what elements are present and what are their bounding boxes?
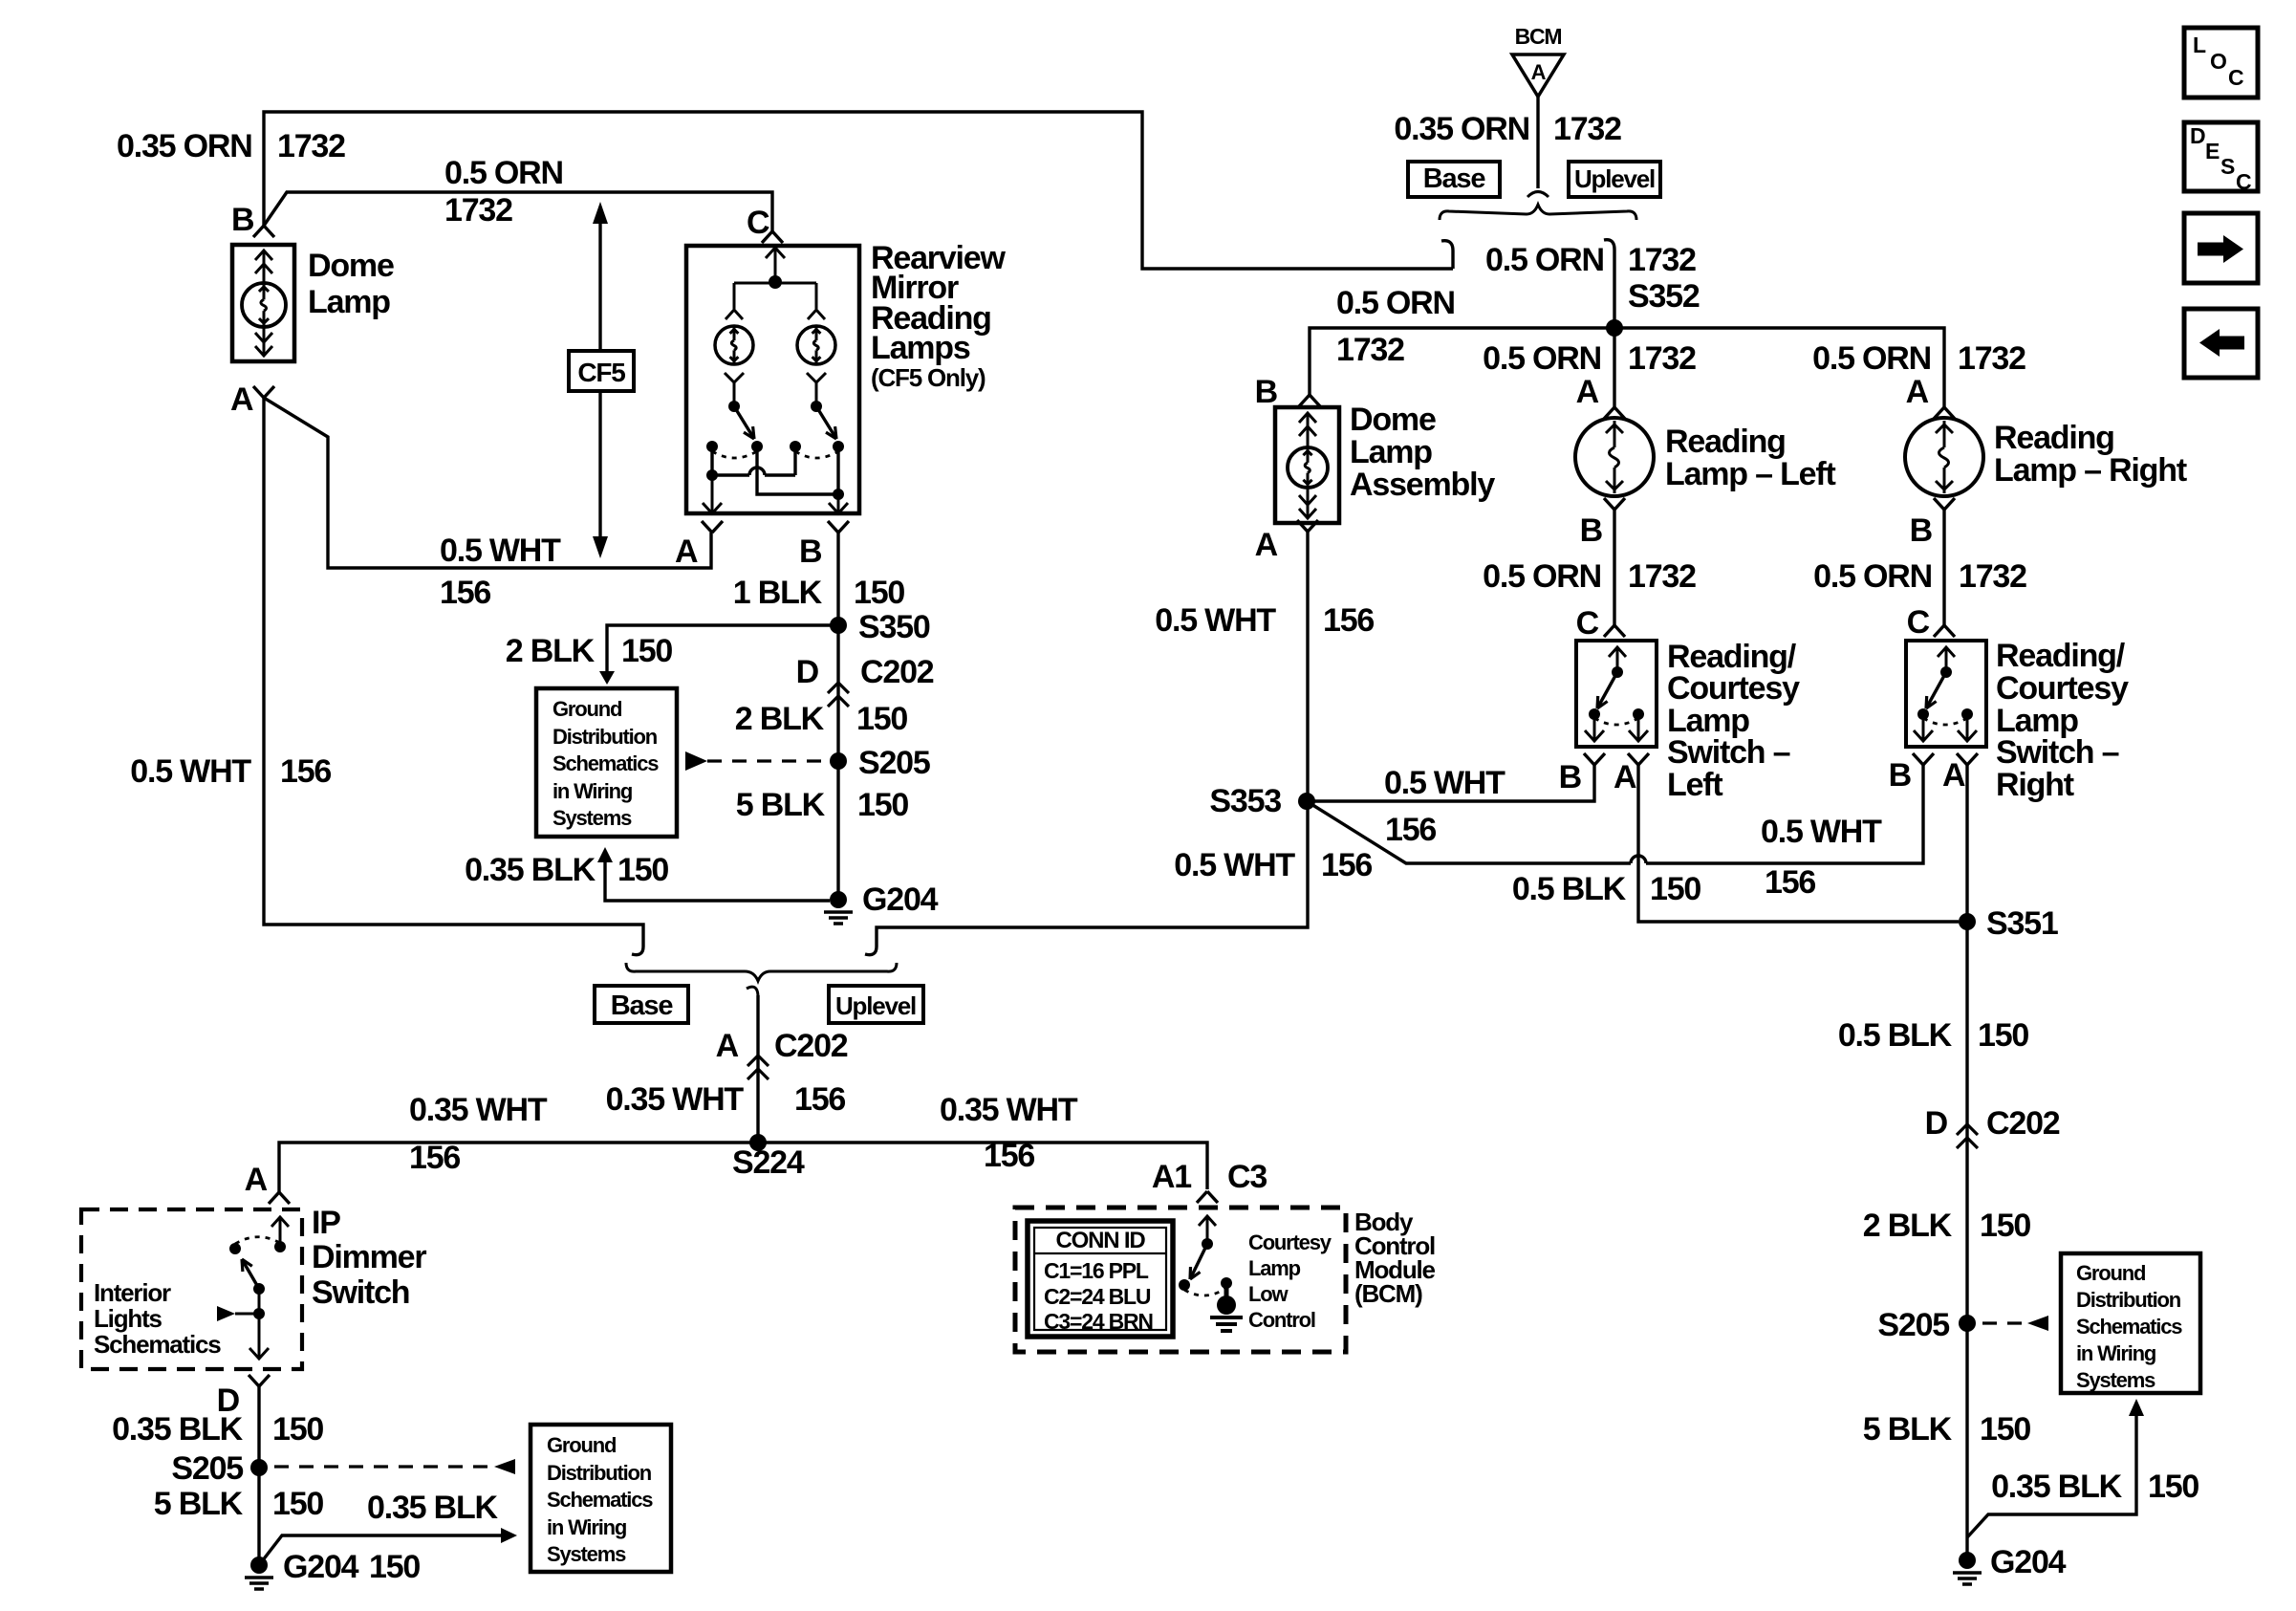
reading lamp right A pin [1934, 407, 1955, 419]
dashed reference S205 (bottom right) [1982, 1321, 2027, 1324]
svg-text:156: 156 [984, 1138, 1034, 1174]
IP dimmer pivot dot [253, 1283, 265, 1295]
IP dimmer dashed arc [235, 1237, 280, 1244]
svg-text:C2=24 BLU: C2=24 BLU [1044, 1284, 1151, 1309]
Uplevel box (bottom bus) [829, 986, 923, 1023]
svg-text:Right: Right [1996, 767, 2074, 803]
BCM A1 pin [1197, 1191, 1218, 1203]
dome lamp B pin [253, 226, 274, 237]
svg-text:Schematics: Schematics [552, 751, 659, 775]
svg-text:A: A [1531, 60, 1547, 84]
splice S350 [830, 617, 847, 634]
svg-text:0.5 ORN: 0.5 ORN [1483, 340, 1601, 377]
CONN ID table [1028, 1221, 1173, 1337]
wire 0.35 ORN 1732 BCM to bus [1536, 97, 1539, 188]
svg-text:Assembly: Assembly [1350, 467, 1495, 503]
svg-text:156: 156 [1323, 602, 1374, 639]
svg-text:Courtesy: Courtesy [1248, 1230, 1332, 1254]
svg-text:Distribution: Distribution [552, 725, 658, 749]
reading lamp right bulb [1905, 418, 1983, 496]
svg-text:B: B [1889, 757, 1912, 794]
ground distribution schematics box (middle left) [536, 688, 677, 837]
svg-text:Dome: Dome [1350, 402, 1436, 438]
svg-text:S205: S205 [1877, 1307, 1949, 1343]
left switch A pin [1628, 753, 1649, 765]
rearview right lamp bulb [797, 326, 835, 364]
bus center hook [747, 987, 758, 995]
dome lamp assembly bulb [1288, 447, 1328, 488]
svg-text:G204: G204 [283, 1549, 359, 1585]
svg-text:2 BLK: 2 BLK [735, 701, 825, 737]
svg-text:S205: S205 [858, 745, 930, 781]
svg-text:Dimmer: Dimmer [312, 1239, 426, 1275]
reading/courtesy lamp switch left [1576, 641, 1657, 747]
svg-text:Reading: Reading [1994, 420, 2114, 456]
rearview A-C crosslink with hop [710, 446, 713, 475]
svg-text:S351: S351 [1986, 905, 2058, 942]
svg-text:BCM: BCM [1515, 24, 1562, 49]
svg-text:C: C [2236, 169, 2251, 194]
svg-text:S350: S350 [858, 609, 930, 645]
splice S351 [1959, 913, 1976, 930]
svg-text:156: 156 [1385, 812, 1436, 848]
splice S205 (middle) [830, 752, 847, 770]
svg-text:150: 150 [1980, 1208, 2030, 1244]
svg-text:1732: 1732 [1958, 340, 2025, 377]
rearview internal junction [769, 275, 782, 289]
rearview dashed contact arc right [795, 451, 838, 458]
IP dimmer D pin [249, 1375, 270, 1386]
main 0.35 WHT wire IP dimmer to BCM [279, 1143, 1207, 1192]
right switch A pin [1957, 753, 1978, 765]
svg-text:B: B [1559, 759, 1582, 795]
svg-text:B: B [799, 533, 822, 570]
DESC legend box [2184, 122, 2258, 191]
svg-text:0.5 ORN: 0.5 ORN [1336, 285, 1455, 321]
wire 1 BLK 150 rearview B to S350 [836, 533, 839, 900]
CF5 arrowhead down [593, 536, 608, 558]
dome lamp assembly up arrows [1299, 413, 1316, 423]
C202 base/uplevel brace [626, 963, 897, 981]
wire 0.5 WHT 156 dome lamp A to rearview mirror A [264, 398, 711, 568]
svg-text:1732: 1732 [444, 192, 512, 229]
svg-text:(BCM): (BCM) [1354, 1279, 1422, 1308]
svg-text:150: 150 [857, 787, 908, 823]
svg-text:0.5 WHT: 0.5 WHT [1174, 847, 1295, 883]
ground G204 (bottom right) [1959, 1552, 1976, 1569]
svg-text:Dome: Dome [308, 248, 394, 284]
svg-text:S224: S224 [732, 1144, 805, 1181]
svg-text:0.5 ORN: 0.5 ORN [1485, 242, 1604, 278]
svg-text:0.5 ORN: 0.5 ORN [444, 155, 563, 191]
svg-text:0.5 WHT: 0.5 WHT [440, 533, 561, 569]
dome lamp assembly down arrows [1299, 495, 1316, 505]
wire 0.5 ORN 1732 from Dome Lamp B to Rearview Mirror C [264, 192, 772, 231]
IP dimmer up arrow [279, 1218, 282, 1247]
svg-text:2 BLK: 2 BLK [506, 633, 596, 669]
svg-text:Courtesy: Courtesy [1996, 670, 2129, 707]
svg-text:G204: G204 [862, 882, 939, 918]
wire 0.5 ORN 1732 lamp right to switch C [1942, 510, 1945, 625]
ground G204 (middle) [830, 891, 847, 908]
wire 0.35 BLK 150 ground distribution to G204 (bottom right) [2129, 1399, 2144, 1416]
svg-text:S205: S205 [171, 1450, 243, 1487]
svg-text:1732: 1732 [1628, 242, 1696, 278]
BCM up arrow [1206, 1217, 1209, 1244]
svg-text:Lights: Lights [94, 1304, 162, 1333]
BCM bus brace [1440, 205, 1636, 220]
svg-text:Switch –: Switch – [1667, 734, 1790, 771]
svg-text:C: C [1907, 604, 1930, 641]
svg-text:S: S [2220, 154, 2235, 179]
svg-text:C: C [1576, 605, 1599, 642]
svg-text:IP: IP [312, 1205, 340, 1241]
wire 0.5 ORN 1732 lamp left to switch C [1613, 510, 1615, 625]
svg-text:Lamp: Lamp [1248, 1256, 1301, 1280]
reading/courtesy lamp switch right [1906, 641, 1986, 747]
IP dimmer switch dashed box [81, 1209, 302, 1369]
svg-text:in Wiring: in Wiring [2076, 1341, 2155, 1365]
svg-text:5 BLK: 5 BLK [736, 787, 826, 823]
svg-text:A: A [1255, 527, 1278, 563]
bus right branch to S352 [1613, 250, 1615, 328]
svg-text:D: D [2190, 123, 2205, 148]
svg-text:Control: Control [1248, 1308, 1315, 1332]
rearview mirror C pin [762, 231, 783, 243]
connector C202 pin D pass-through [828, 683, 849, 693]
svg-text:Uplevel: Uplevel [835, 991, 916, 1020]
rearview left lamp bulb [715, 326, 753, 364]
wire S352 to reading lamp left [1613, 328, 1615, 407]
svg-text:Systems: Systems [547, 1542, 626, 1566]
svg-text:C202: C202 [860, 654, 934, 690]
svg-text:Reading: Reading [1665, 424, 1786, 460]
wire 0.35 BLK / 5 BLK to G204 (bottom left) [257, 1386, 260, 1560]
ground distribution schematics box (bottom right) [2061, 1253, 2200, 1393]
svg-text:B: B [231, 202, 254, 238]
rearview B-D crosslink [757, 446, 838, 494]
svg-text:156: 156 [1765, 864, 1815, 901]
dashed reference to S205 (middle left) [685, 751, 707, 771]
svg-text:150: 150 [272, 1411, 323, 1448]
svg-text:150: 150 [856, 701, 907, 737]
svg-text:150: 150 [854, 575, 904, 611]
svg-text:2 BLK: 2 BLK [1863, 1208, 1953, 1244]
CF5 box [569, 351, 634, 391]
svg-text:0.35 ORN: 0.35 ORN [117, 128, 252, 164]
svg-text:D: D [796, 654, 819, 690]
svg-text:A: A [230, 381, 253, 418]
wire 0.5 ORN 1732 S352 rail [1310, 328, 1944, 407]
arrow into ground distribution box [599, 671, 615, 685]
BCM internal ground [1224, 1283, 1229, 1297]
svg-text:CF5: CF5 [577, 358, 625, 387]
wire 0.35 BLK 150 from ground distribution to G204 (middle) [597, 847, 613, 862]
wire 0.5 WHT 156 long left drop to C202 bus [264, 398, 643, 947]
svg-text:0.5 WHT: 0.5 WHT [1155, 602, 1276, 639]
svg-text:B: B [1255, 374, 1278, 410]
BCM dashed arc [1184, 1288, 1226, 1295]
svg-text:Switch: Switch [312, 1274, 409, 1311]
svg-text:150: 150 [617, 852, 668, 888]
svg-text:0.35 BLK: 0.35 BLK [465, 852, 596, 888]
svg-text:B: B [1580, 512, 1603, 549]
svg-text:S353: S353 [1209, 783, 1281, 819]
rearview left lamp drop [733, 283, 736, 309]
dome lamp assembly box [1275, 407, 1339, 523]
svg-text:150: 150 [1980, 1411, 2030, 1448]
svg-text:Schematics: Schematics [547, 1488, 653, 1512]
rearview left switch lever [734, 406, 754, 439]
svg-text:1732: 1732 [1959, 558, 2026, 595]
svg-text:0.5 ORN: 0.5 ORN [1813, 558, 1932, 595]
svg-text:in Wiring: in Wiring [547, 1515, 626, 1539]
rearview B pin [828, 521, 849, 533]
rearview left lamp lower Y [725, 373, 744, 382]
svg-text:in Wiring: in Wiring [552, 779, 632, 803]
svg-text:Schematics: Schematics [94, 1330, 221, 1359]
svg-text:Distribution: Distribution [2076, 1288, 2181, 1312]
ground distribution schematics box (bottom left) [531, 1425, 671, 1572]
BCM triangle [1512, 54, 1564, 97]
svg-text:1732: 1732 [277, 128, 345, 164]
splice S353 [1298, 793, 1315, 810]
svg-text:0.5 BLK: 0.5 BLK [1512, 871, 1627, 907]
svg-text:(CF5 Only): (CF5 Only) [871, 363, 986, 392]
dome lamp DL1 down arrows [255, 333, 272, 342]
svg-text:Systems: Systems [2076, 1368, 2155, 1392]
LOC legend box [2184, 28, 2258, 98]
interior lights reference arrow [217, 1306, 235, 1321]
svg-text:150: 150 [621, 633, 672, 669]
svg-text:150: 150 [369, 1549, 420, 1585]
svg-text:Low: Low [1248, 1282, 1289, 1306]
svg-text:A: A [1942, 757, 1965, 794]
rearview mirror reading lamps box [686, 246, 859, 513]
svg-text:C202: C202 [774, 1028, 848, 1064]
right switch C pin [1934, 625, 1955, 637]
svg-text:156: 156 [440, 575, 490, 611]
connector C202 pin D pass-through (right) [1957, 1124, 1978, 1135]
svg-text:Systems: Systems [552, 806, 632, 830]
rearview right lamp lower Y [807, 373, 826, 382]
svg-text:B: B [1910, 512, 1933, 549]
svg-text:L: L [2193, 33, 2206, 57]
IP dimmer lever [242, 1259, 259, 1289]
rearview contact dots [706, 441, 718, 452]
wire 0.5 BLK 150 left switch A to S351 [1638, 765, 1959, 922]
svg-text:1 BLK: 1 BLK [733, 575, 823, 611]
BCM contact dot right [1221, 1277, 1232, 1289]
svg-text:D: D [1925, 1105, 1948, 1142]
svg-text:0.35 WHT: 0.35 WHT [940, 1092, 1078, 1128]
IP dimmer A pin [269, 1192, 290, 1204]
svg-text:1732: 1732 [1628, 558, 1696, 595]
svg-text:A: A [1614, 759, 1636, 795]
dome lamp DL1 bulb [242, 283, 286, 327]
svg-text:Switch –: Switch – [1996, 734, 2119, 771]
wire 0.5 WHT 156 S353 to right switch B with hop [1307, 801, 1631, 863]
Uplevel box (top bus) [1569, 162, 1660, 197]
svg-text:1732: 1732 [1628, 340, 1696, 377]
svg-text:5 BLK: 5 BLK [154, 1486, 244, 1522]
rearview right switch pivot [811, 401, 822, 412]
connector C202 pin A pass-through [747, 1056, 769, 1066]
svg-text:C: C [747, 205, 769, 241]
rearview A pin [702, 521, 723, 533]
svg-text:E: E [2205, 139, 2220, 163]
BCM contact dot left [1179, 1279, 1190, 1291]
svg-text:0.35 BLK: 0.35 BLK [112, 1411, 244, 1448]
right switch B pin [1913, 753, 1934, 765]
svg-text:Lamp – Left: Lamp – Left [1665, 456, 1835, 492]
svg-text:156: 156 [794, 1081, 845, 1118]
CF5 flag arrow line [598, 222, 601, 351]
svg-text:0.5 ORN: 0.5 ORN [1812, 340, 1931, 377]
svg-text:156: 156 [409, 1140, 460, 1176]
svg-text:Lamp: Lamp [1350, 434, 1432, 470]
rearview internal feed [774, 247, 777, 282]
svg-text:A: A [1906, 374, 1929, 410]
rearview pin A down arrow [711, 475, 714, 512]
svg-text:Ground: Ground [552, 697, 621, 721]
svg-text:C: C [2228, 65, 2243, 90]
IP dimmer contact dots [274, 1241, 286, 1252]
dome lamp DL1 up arrows [255, 250, 272, 260]
svg-text:Distribution: Distribution [547, 1461, 652, 1485]
reading lamp right B pin [1934, 498, 1955, 510]
svg-text:Base: Base [1423, 163, 1486, 194]
left switch C pin [1604, 625, 1625, 637]
rearview dashed contact arc left [712, 451, 757, 458]
splice S224 [749, 1134, 767, 1151]
wire 2 BLK 150 S350 to ground distribution ref [607, 625, 838, 671]
svg-text:A: A [245, 1162, 268, 1198]
rearview pin B down arrow [837, 494, 840, 512]
CF5 arrowhead up [593, 202, 608, 224]
svg-text:C3=24 BRN: C3=24 BRN [1044, 1309, 1153, 1334]
svg-text:Lamps: Lamps [871, 330, 970, 366]
svg-text:CONN ID: CONN ID [1056, 1228, 1146, 1253]
wire 0.5 WHT 156 S353 to left switch B [1307, 765, 1594, 801]
svg-text:G204: G204 [1990, 1544, 2067, 1580]
svg-text:C1=16 PPL: C1=16 PPL [1044, 1258, 1149, 1283]
wire 0.35 BLK 150 G204 to ground distribution (bottom left) [259, 1535, 501, 1565]
svg-text:150: 150 [1978, 1017, 2028, 1054]
svg-text:A1: A1 [1152, 1159, 1191, 1195]
svg-text:150: 150 [272, 1486, 323, 1522]
IP dimmer wiper stem [258, 1289, 261, 1314]
svg-text:Ground: Ground [547, 1433, 616, 1457]
svg-text:0.5 WHT: 0.5 WHT [1384, 765, 1505, 801]
svg-text:Lamp: Lamp [308, 284, 390, 320]
body control module dashed box [1015, 1208, 1346, 1352]
svg-text:1732: 1732 [1336, 332, 1404, 368]
IP dimmer down arrow [258, 1314, 261, 1358]
svg-text:Schematics: Schematics [2076, 1315, 2182, 1339]
svg-text:C202: C202 [1986, 1105, 2060, 1142]
BCM switch pivot dot [1202, 1238, 1213, 1250]
svg-text:Ground: Ground [2076, 1261, 2145, 1285]
svg-text:0.35 BLK: 0.35 BLK [1991, 1469, 2123, 1505]
svg-text:0.35 BLK: 0.35 BLK [367, 1490, 499, 1526]
svg-text:A: A [716, 1028, 739, 1064]
svg-text:0.5 ORN: 0.5 ORN [1483, 558, 1601, 595]
ground G204 (bottom left) [250, 1557, 268, 1574]
svg-text:C3: C3 [1227, 1159, 1267, 1195]
left switch B pin [1584, 753, 1605, 765]
left arrow legend box [2184, 309, 2258, 378]
svg-text:0.35 WHT: 0.35 WHT [606, 1081, 745, 1118]
BCM switch lever [1190, 1244, 1207, 1279]
right arrow legend box [2184, 213, 2258, 283]
svg-text:S352: S352 [1628, 278, 1700, 315]
dashed reference S205 to ground distribution (bottom left) [274, 1465, 494, 1468]
svg-text:Reading/: Reading/ [1996, 638, 2126, 674]
svg-text:0.5 WHT: 0.5 WHT [1761, 814, 1882, 850]
dome lamp assembly A pin [1297, 520, 1318, 532]
dome lamp A pin [253, 386, 274, 398]
svg-text:150: 150 [1650, 871, 1700, 907]
svg-text:156: 156 [1321, 847, 1372, 883]
svg-text:Uplevel: Uplevel [1574, 164, 1655, 193]
svg-text:O: O [2210, 49, 2226, 74]
right bus wire from dome lamp assembly [877, 532, 1308, 947]
rearview internal branch bar [734, 282, 816, 285]
svg-text:0.35 WHT: 0.35 WHT [409, 1092, 548, 1128]
svg-text:A: A [675, 533, 698, 570]
svg-text:Left: Left [1667, 767, 1722, 803]
svg-text:Interior: Interior [94, 1278, 171, 1307]
splice S205 (bottom right) [1959, 1315, 1976, 1332]
wire right switch A down to G204 [1965, 765, 1968, 1560]
svg-text:156: 156 [280, 753, 331, 790]
dome lamp assembly B pin [1299, 395, 1320, 406]
svg-text:1732: 1732 [1553, 111, 1621, 147]
svg-text:150: 150 [2148, 1469, 2199, 1505]
rearview right lamp drop [815, 283, 818, 309]
svg-text:5 BLK: 5 BLK [1863, 1411, 1953, 1448]
svg-text:Courtesy: Courtesy [1667, 670, 1800, 707]
svg-text:0.5 BLK: 0.5 BLK [1838, 1017, 1953, 1054]
Base box (bottom bus) [595, 986, 688, 1023]
reading lamp left bulb [1575, 418, 1654, 496]
svg-text:Base: Base [611, 991, 674, 1021]
rearview left switch pivot [728, 401, 740, 412]
splice S352 [1606, 319, 1623, 337]
reading lamp left A pin [1604, 407, 1625, 419]
wire 0.35 ORN 1732 from Dome Lamp B to BCM bus (top left) [264, 112, 1453, 269]
svg-text:0.5 WHT: 0.5 WHT [130, 753, 251, 790]
svg-text:0.35 ORN: 0.35 ORN [1394, 111, 1529, 147]
splice S205 (bottom left) [250, 1459, 268, 1476]
Base box (top bus) [1408, 162, 1500, 197]
svg-text:A: A [1576, 374, 1599, 410]
reading lamp left B pin [1604, 498, 1625, 510]
wire A C202 to S224 [756, 995, 759, 1143]
rearview right switch lever [816, 406, 836, 439]
dome lamp DL1 box [232, 245, 294, 361]
svg-text:Lamp – Right: Lamp – Right [1994, 452, 2187, 489]
